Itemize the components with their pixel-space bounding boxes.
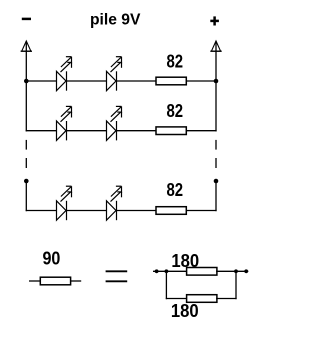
- LED D3: [57, 106, 72, 140]
- resistor R4: [40, 277, 70, 285]
- node network outer right: [244, 269, 248, 273]
- node junction row3 left: [24, 179, 29, 184]
- wire row2 segment d: [186, 130, 216, 132]
- label plus terminal: [210, 16, 219, 25]
- terminal arrow negative: [21, 41, 32, 51]
- resistor R5: [187, 268, 217, 276]
- wire row2 segment a: [26, 130, 57, 132]
- wire network bottom right: [216, 298, 236, 300]
- wire row1 segment a: [26, 80, 57, 82]
- wire network bottom left: [166, 298, 187, 300]
- resistor R2: [156, 127, 186, 135]
- label minus terminal: [22, 18, 31, 21]
- svg-text:90: 90: [42, 249, 60, 269]
- node network inner right: [234, 269, 238, 273]
- svg-text:pile 9V: pile 9V: [90, 12, 141, 29]
- wire row3 segment b: [67, 210, 107, 212]
- svg-text:82: 82: [167, 101, 184, 121]
- resistor R6: [187, 295, 217, 303]
- wire network top left: [153, 270, 187, 272]
- resistor R1: [156, 77, 186, 85]
- node network inner left: [165, 269, 169, 273]
- resistor R3: [156, 207, 186, 215]
- wire row3 segment d: [186, 210, 216, 212]
- equivalence sign: [106, 271, 128, 281]
- wire row1 segment b: [67, 80, 107, 82]
- wire row3 segment a: [26, 210, 57, 212]
- LED D1: [57, 57, 72, 91]
- wire right rail dashed: [215, 140, 217, 168]
- wire row1 segment d: [186, 80, 216, 82]
- wire left rail dashed: [25, 140, 27, 168]
- LED D5: [57, 186, 72, 220]
- node junction row3 right: [214, 179, 219, 184]
- node junction row1 right: [214, 79, 219, 84]
- wire right rail bottom: [215, 181, 217, 211]
- LED D6: [107, 186, 122, 220]
- wire network right vertical: [235, 271, 237, 299]
- LED D2: [107, 57, 122, 91]
- svg-text:82: 82: [167, 52, 184, 72]
- LED D4: [107, 106, 122, 140]
- svg-text:82: 82: [167, 180, 184, 200]
- wire row2 segment c: [117, 130, 157, 132]
- wire right rail top: [215, 42, 217, 132]
- wire network top right: [216, 270, 248, 272]
- wire R4 right stub: [71, 280, 82, 282]
- node network outer left: [155, 269, 159, 273]
- node junction row1 left: [24, 79, 29, 84]
- terminal arrow positive: [210, 41, 221, 51]
- wire left rail top: [25, 42, 27, 132]
- wire network left vertical: [165, 271, 167, 299]
- wire left rail bottom: [25, 181, 27, 211]
- wire row2 segment b: [67, 130, 107, 132]
- wire R4 left stub: [29, 280, 40, 282]
- wire row3 segment c: [117, 210, 157, 212]
- svg-text:180: 180: [171, 301, 199, 321]
- wire row1 segment c: [117, 80, 157, 82]
